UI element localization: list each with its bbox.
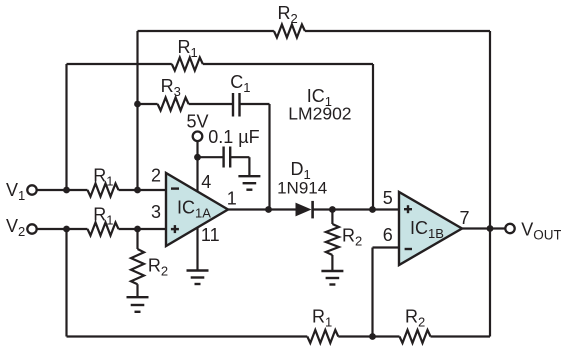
- terminal V1: [27, 185, 36, 194]
- node bottom rail junction: [369, 333, 376, 340]
- svg-text:R2: R2: [148, 256, 168, 279]
- svg-text:4: 4: [201, 172, 211, 192]
- svg-text:R1: R1: [93, 165, 113, 188]
- svg-text:R2: R2: [405, 306, 425, 329]
- wire bottom rail right segment: [431, 335, 491, 337]
- node pin3 junction: [134, 226, 141, 233]
- node Vout junction: [487, 225, 494, 232]
- svg-text:3: 3: [151, 202, 161, 222]
- resistor R2 (bottom): [400, 330, 431, 343]
- resistor R2 (rectifier load): [326, 224, 339, 255]
- wire C1 vertical down to IC1A output node: [268, 104, 270, 210]
- wire pin6 horizontal: [373, 246, 400, 248]
- resistor R1 (V2 input): [88, 223, 119, 236]
- capacitor C1: [233, 93, 240, 117]
- node IC1A output junction: [265, 206, 272, 213]
- resistor R1 (bottom): [307, 330, 338, 343]
- svg-text:C1: C1: [230, 72, 250, 95]
- node V1 junction: [63, 187, 70, 194]
- wire pin6 vertical to bottom node: [371, 248, 373, 337]
- wire R1 top left segment: [67, 63, 172, 65]
- svg-text:LM2902: LM2902: [288, 104, 351, 124]
- svg-text:R1: R1: [178, 37, 198, 60]
- svg-text:R3: R3: [161, 76, 181, 99]
- node pin5 junction: [369, 206, 376, 213]
- svg-text:1: 1: [227, 189, 237, 209]
- resistor R1 (top feedback): [172, 58, 203, 71]
- svg-text:V1: V1: [6, 180, 25, 203]
- ground (V2 shunt R2): [127, 297, 149, 312]
- wire R2 load to ground: [331, 255, 333, 271]
- ground (rectifier load R2): [321, 271, 343, 285]
- svg-text:R1: R1: [312, 306, 332, 329]
- svg-text:11: 11: [201, 225, 220, 245]
- capacitor 0.1uF bypass: [224, 147, 231, 168]
- node 5V bypass junction: [194, 154, 201, 161]
- wire node A vertical (x=137.5): [136, 31, 138, 190]
- wire R3 segment from node A: [138, 103, 158, 105]
- wire top R2 net right segment: [305, 30, 490, 32]
- wire right vertical (Vout column): [489, 31, 491, 337]
- ground (IC1A pin 11): [187, 271, 209, 285]
- wire 5V terminal to bypass node: [196, 141, 198, 157]
- wire C2 ground vertical: [248, 157, 250, 176]
- node V2 junction: [63, 226, 70, 233]
- svg-text:V2: V2: [6, 216, 25, 239]
- diode D1 1N914: [296, 203, 312, 217]
- wire diode node R2 down: [331, 210, 333, 225]
- wire IC1B output to Vout terminal: [462, 227, 505, 229]
- wire bypass node to C2: [198, 156, 224, 158]
- svg-text:2: 2: [151, 165, 161, 185]
- resistor R2 (top feedback): [274, 25, 305, 38]
- wire R1 to pin 3: [119, 228, 167, 230]
- svg-text:R1: R1: [93, 204, 113, 227]
- node A R3 junction: [134, 101, 141, 108]
- node diode output junction: [329, 206, 336, 213]
- svg-text:R2: R2: [278, 3, 298, 26]
- wire V2 node down to bottom rail: [65, 229, 67, 337]
- svg-text:1N914: 1N914: [277, 179, 327, 198]
- op-amp IC1A plus sign: [171, 225, 179, 233]
- op-amp IC1A: [166, 173, 228, 246]
- terminal V2: [27, 224, 36, 233]
- svg-text:0.1 µF: 0.1 µF: [208, 127, 259, 147]
- wire R1 top left vertical from V1 node: [65, 64, 67, 190]
- wire pin3 node R2 down: [136, 229, 138, 249]
- ground (bypass capacitor): [238, 176, 260, 190]
- svg-text:6: 6: [383, 225, 393, 245]
- node A pin2 junction: [134, 187, 141, 194]
- op-amp IC1B minus sign: [405, 248, 412, 250]
- wire bottom rail middle segment: [338, 335, 399, 337]
- svg-text:5V: 5V: [187, 112, 209, 132]
- wire diode to pin 5: [313, 208, 399, 210]
- op-amp IC1B plus sign: [404, 205, 412, 213]
- wire R1 to pin 2: [119, 189, 167, 191]
- wire R2 shunt to ground: [136, 284, 138, 297]
- svg-text:5: 5: [383, 188, 393, 208]
- wire V2 terminal to node: [37, 228, 88, 230]
- svg-text:VOUT: VOUT: [521, 219, 561, 242]
- op-amp IC1B: [399, 192, 462, 265]
- wire pin 11 to ground: [196, 228, 198, 271]
- wire top R2 net left segment: [138, 30, 274, 32]
- svg-text:7: 7: [460, 208, 470, 228]
- wire C1 right to corner: [240, 103, 270, 105]
- terminal 5V: [193, 132, 203, 142]
- wire C2 right to ground corner: [230, 156, 249, 158]
- wire bottom rail left segment: [67, 335, 308, 337]
- resistor R1 (V1 input): [88, 184, 119, 197]
- op-amp IC1A minus sign: [171, 187, 179, 189]
- wire R1 top right vertical to pin5 node: [372, 64, 374, 210]
- terminal Vout: [505, 224, 514, 233]
- wire R1 top right segment: [203, 63, 373, 65]
- svg-text:R2: R2: [342, 226, 362, 249]
- wire IC1A output to diode: [228, 208, 296, 210]
- resistor R3: [158, 98, 189, 111]
- resistor R2 (V2 shunt): [131, 249, 144, 284]
- wire R3 to C1: [189, 103, 233, 105]
- wire V1 terminal to node: [37, 189, 88, 191]
- wire bypass node to pin 4: [196, 157, 198, 191]
